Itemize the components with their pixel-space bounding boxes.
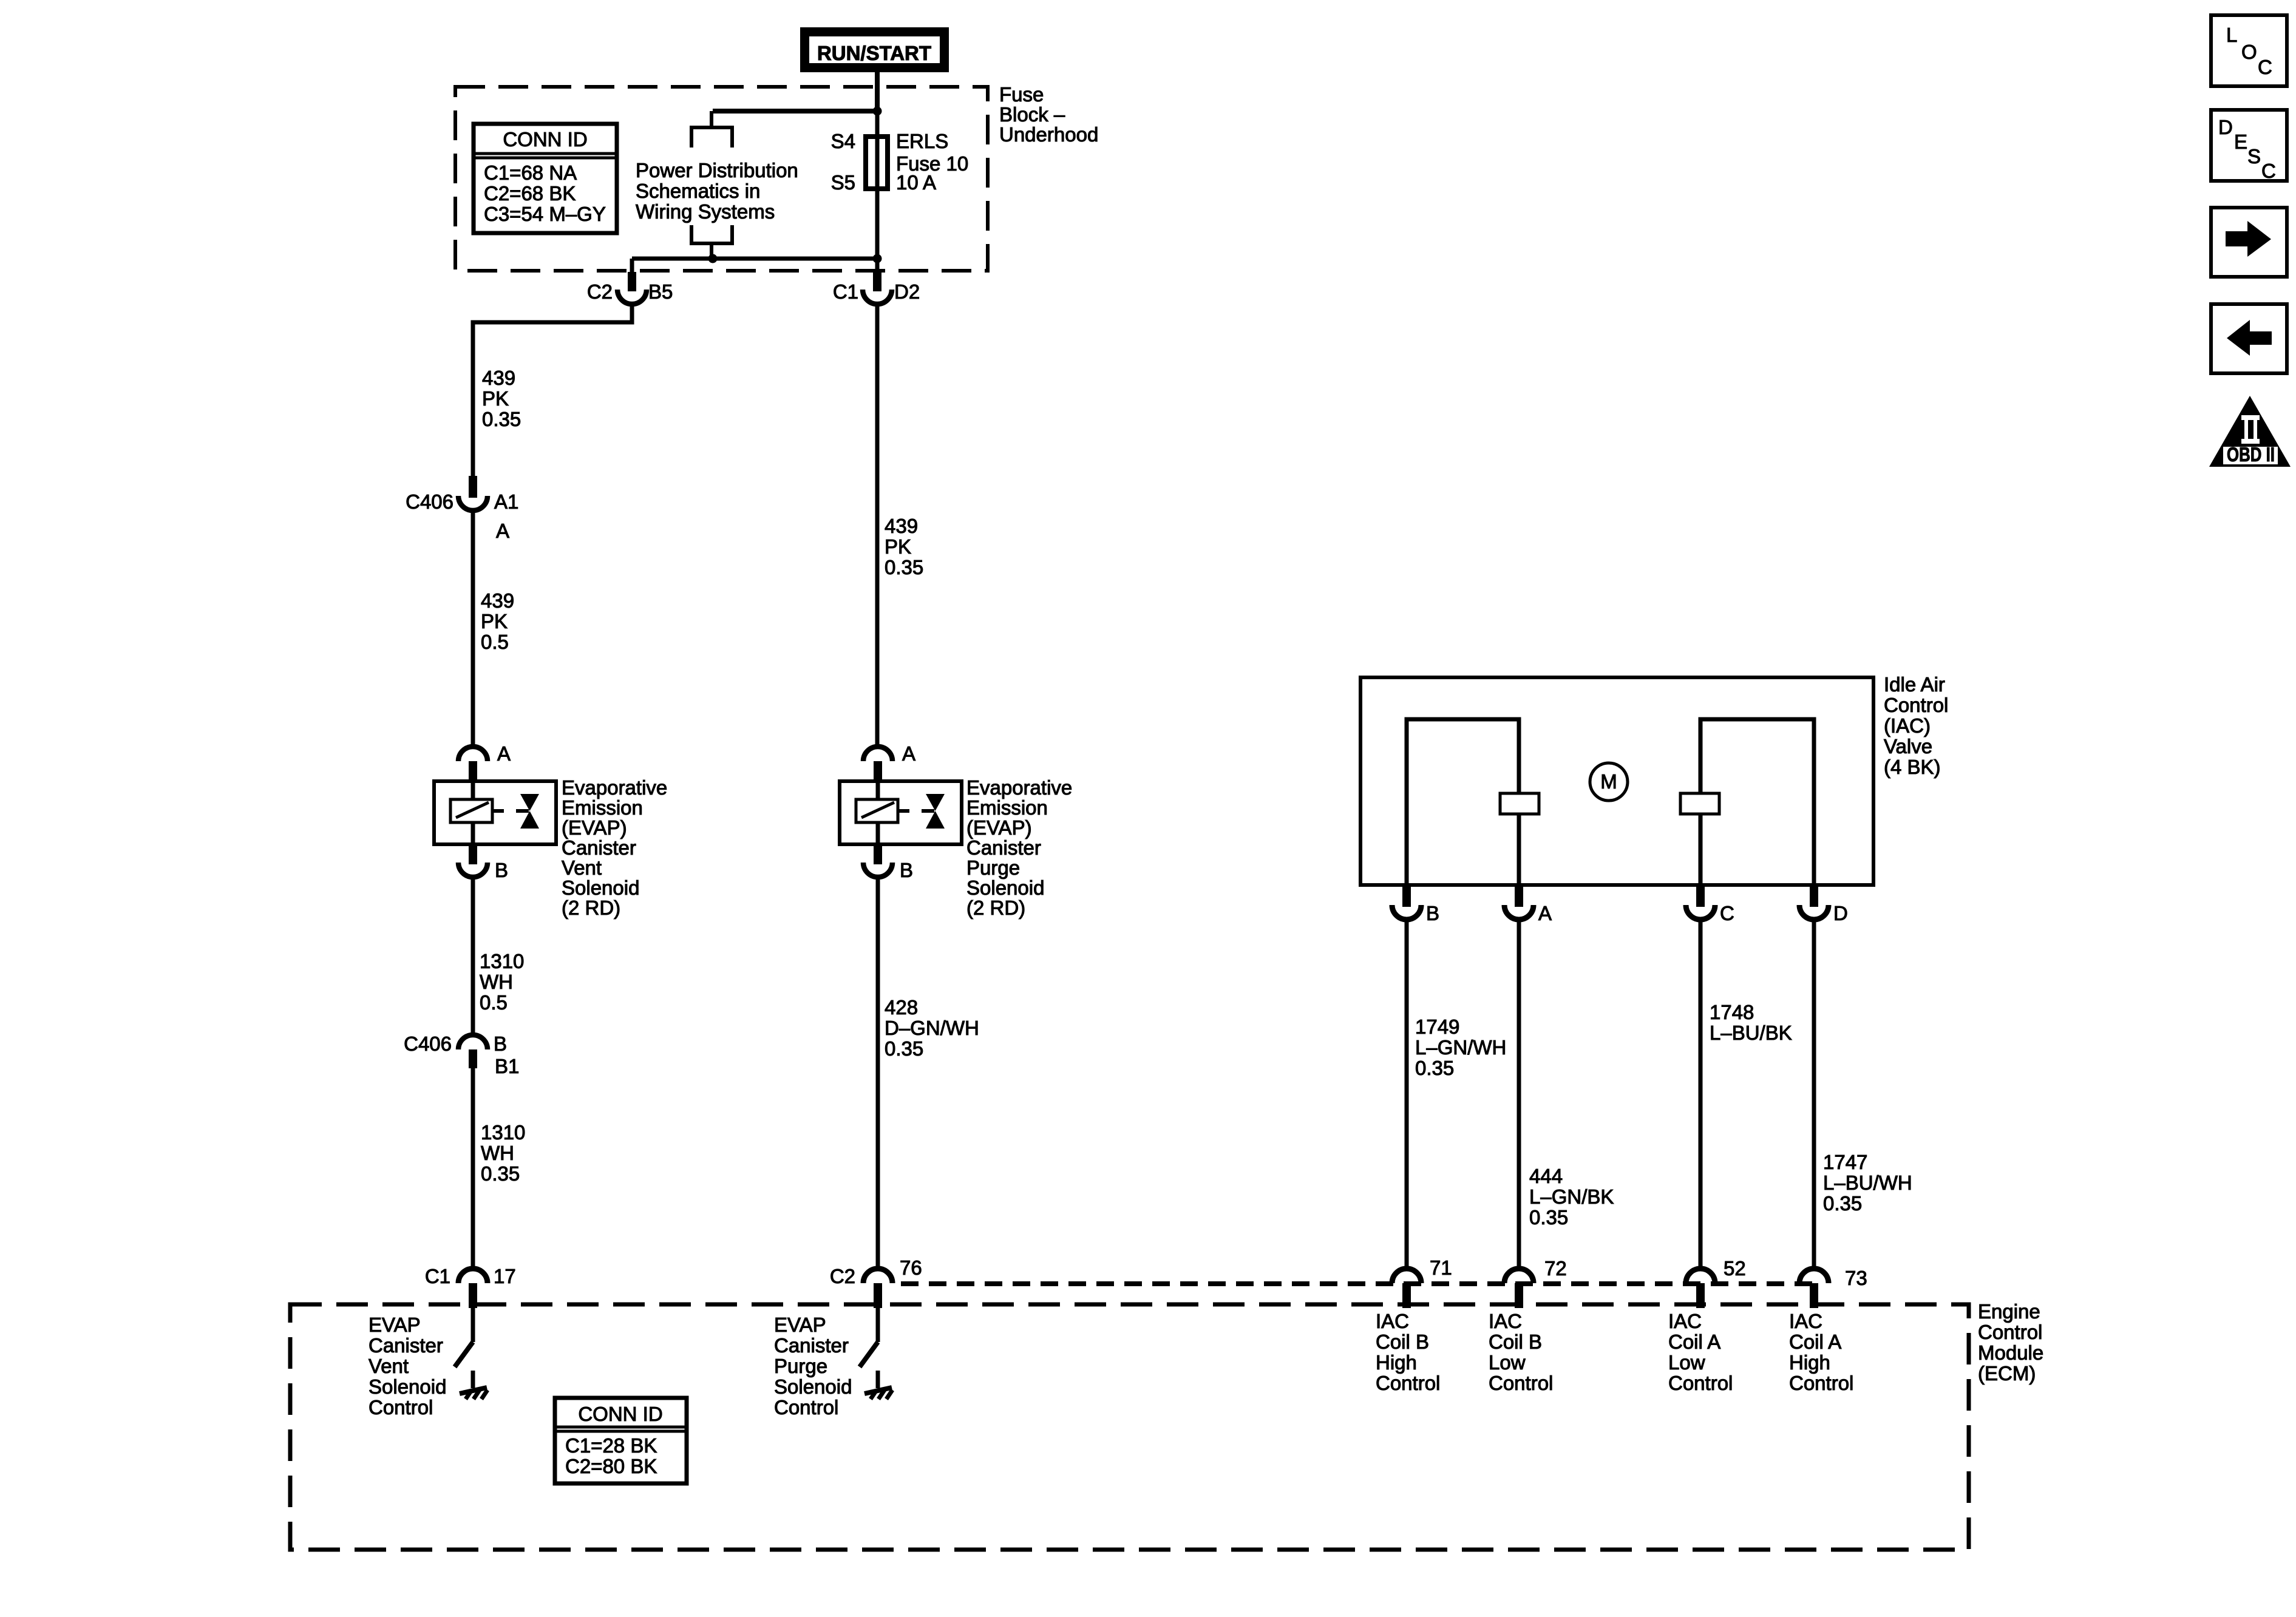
svg-text:EVAP: EVAP	[774, 1314, 826, 1336]
connector C1 pin 17 (ECM)	[425, 1265, 516, 1308]
wire through fuse ERLS	[875, 111, 880, 272]
svg-text:C1=68 NA: C1=68 NA	[484, 161, 577, 184]
connector C406 pin B / B1	[404, 1032, 519, 1077]
label: Idle Air Control (IAC) Valve (4 BK)	[1884, 673, 1948, 778]
svg-text:IAC: IAC	[1489, 1310, 1522, 1332]
note: Power Distribution Schematics in Wiring Systems	[636, 159, 798, 223]
svg-text:1310: 1310	[480, 950, 524, 972]
svg-text:428: 428	[885, 996, 918, 1019]
svg-text:E: E	[2234, 131, 2247, 153]
solenoid coil + valve	[840, 781, 962, 844]
label: EVAP Canister Vent Solenoid Control	[369, 1314, 446, 1419]
svg-text:C1: C1	[425, 1265, 450, 1287]
IAC coil B winding loop	[1407, 719, 1519, 885]
EVAP vent solenoid control switch (ECM internal)	[455, 1308, 487, 1399]
label: Engine Control Module (ECM)	[1978, 1300, 2043, 1385]
svg-text:D–GN/WH: D–GN/WH	[885, 1017, 979, 1039]
junction node S4	[873, 107, 882, 116]
svg-text:High: High	[1789, 1351, 1830, 1374]
svg-text:Purge: Purge	[966, 856, 1020, 879]
label: IAC Coil A High Control	[1789, 1310, 1853, 1394]
svg-text:B1: B1	[495, 1055, 519, 1077]
svg-text:Engine: Engine	[1978, 1300, 2040, 1323]
label: IAC Coil B Low Control	[1489, 1310, 1553, 1394]
IAC valve pin C	[1686, 885, 1734, 924]
svg-text:439: 439	[482, 367, 515, 389]
fuse block - underhood dashed outline	[455, 87, 988, 271]
svg-text:Control: Control	[1668, 1372, 1733, 1394]
svg-text:A: A	[497, 742, 511, 765]
off-page bracket (bottom)	[691, 225, 732, 259]
svg-text:439: 439	[481, 589, 514, 612]
EVAP canister vent solenoid (2 RD)	[458, 742, 511, 783]
wire IAC pin D to ECM	[1812, 919, 1816, 1269]
label: EVAP Canister Purge Solenoid Control	[774, 1314, 852, 1419]
svg-text:Solenoid: Solenoid	[562, 876, 639, 899]
svg-text:A: A	[1538, 902, 1552, 924]
IAC motor M	[1590, 763, 1628, 801]
svg-text:(IAC): (IAC)	[1884, 714, 1931, 737]
svg-text:Low: Low	[1489, 1351, 1526, 1374]
IAC valve pin B	[1392, 885, 1439, 924]
svg-text:IAC: IAC	[1376, 1310, 1409, 1332]
off-page bracket (top) to power distribution	[691, 111, 732, 147]
svg-text:Fuse: Fuse	[999, 83, 1044, 106]
svg-text:A: A	[496, 520, 509, 542]
svg-text:Low: Low	[1668, 1351, 1705, 1374]
CONN ID table (ECM)	[555, 1398, 687, 1483]
wire junction to power distribution tap	[713, 109, 877, 114]
svg-text:L–GN/WH: L–GN/WH	[1415, 1036, 1506, 1059]
svg-text:IAC: IAC	[1789, 1310, 1822, 1332]
fuse ERLS Fuse 10 10A (S4-S5)	[831, 130, 969, 194]
IAC valve pin A	[1504, 885, 1552, 924]
svg-text:PK: PK	[885, 535, 911, 558]
wire IAC pin C to ECM	[1699, 919, 1703, 1269]
label: IAC Coil A Low Control	[1668, 1310, 1733, 1394]
LOC nav icon	[2211, 15, 2287, 86]
svg-text:Idle Air: Idle Air	[1884, 673, 1945, 696]
svg-text:(EVAP): (EVAP)	[562, 816, 627, 839]
OBD II icon	[2209, 396, 2291, 467]
svg-text:1747: 1747	[1823, 1151, 1867, 1173]
wire to ECM pin 17	[471, 1067, 475, 1269]
IAC coil A element	[1680, 793, 1719, 814]
svg-text:C406: C406	[404, 1032, 452, 1055]
dashed net line pin 76 to IAC pins	[901, 1281, 1815, 1286]
label: Fuse Block - Underhood	[999, 83, 1098, 146]
svg-text:B5: B5	[648, 280, 673, 303]
wire label 439 PK 0.35 (purge)	[885, 515, 923, 578]
svg-text:CONN ID: CONN ID	[578, 1403, 662, 1425]
wire D2 down	[875, 302, 880, 748]
wire label 1747 L-BU/WH 0.35	[1823, 1151, 1912, 1215]
svg-text:D2: D2	[894, 280, 920, 303]
CONN ID table (fuse block)	[474, 124, 617, 233]
svg-text:1310: 1310	[481, 1121, 525, 1144]
wire label 444 L-GN/BK 0.35	[1529, 1165, 1614, 1229]
wire C406 to vent solenoid	[471, 509, 475, 748]
wire B5 jog left down	[473, 302, 632, 480]
wire label 1749 L-GN/WH 0.35	[1415, 1015, 1506, 1079]
power feed RUN/START box	[805, 32, 945, 68]
EVAP purge solenoid control switch (ECM internal)	[860, 1308, 892, 1399]
connector C2 pin B5 (fuse block output left)	[587, 272, 673, 304]
svg-text:Valve: Valve	[1884, 735, 1932, 758]
svg-text:C2: C2	[830, 1265, 855, 1287]
svg-text:C: C	[2258, 56, 2272, 78]
svg-text:L: L	[2226, 24, 2237, 46]
svg-text:Vent: Vent	[562, 856, 602, 879]
svg-text:(EVAP): (EVAP)	[966, 816, 1032, 839]
svg-text:0.35: 0.35	[482, 408, 521, 430]
svg-text:D: D	[2218, 116, 2233, 138]
svg-text:C2=68 BK: C2=68 BK	[484, 182, 576, 205]
connector C1 pin D2 (fuse block output right)	[833, 272, 920, 304]
svg-text:Emission: Emission	[966, 796, 1048, 819]
svg-text:Module: Module	[1978, 1341, 2043, 1364]
svg-text:10 A: 10 A	[896, 171, 936, 194]
svg-text:IAC: IAC	[1668, 1310, 1702, 1332]
svg-text:Coil B: Coil B	[1489, 1331, 1542, 1353]
IAC valve pin D	[1799, 885, 1848, 924]
svg-text:L–GN/BK: L–GN/BK	[1529, 1185, 1614, 1208]
IAC coil A winding loop	[1700, 719, 1814, 885]
wire label 1748 L-BU/BK	[1710, 1001, 1792, 1044]
svg-text:Control: Control	[1489, 1372, 1553, 1394]
DESC nav icon	[2211, 110, 2287, 182]
pin B connector	[458, 844, 508, 881]
svg-text:Control: Control	[774, 1396, 838, 1419]
svg-text:Wiring Systems: Wiring Systems	[636, 200, 775, 223]
svg-text:EVAP: EVAP	[369, 1314, 421, 1336]
wire label 439 PK 0.5	[481, 589, 514, 653]
svg-text:Control: Control	[369, 1396, 433, 1419]
svg-text:Coil A: Coil A	[1668, 1331, 1720, 1353]
svg-text:73: 73	[1845, 1267, 1867, 1289]
svg-text:(ECM): (ECM)	[1978, 1362, 2036, 1385]
svg-text:Evaporative: Evaporative	[966, 776, 1072, 799]
svg-text:0.35: 0.35	[481, 1162, 520, 1185]
svg-text:0.35: 0.35	[885, 1037, 923, 1060]
svg-text:C: C	[2261, 160, 2276, 182]
svg-text:Power Distribution: Power Distribution	[636, 159, 798, 181]
svg-text:C2=80 BK: C2=80 BK	[565, 1455, 657, 1477]
svg-text:C1: C1	[833, 280, 858, 303]
wire label 1310 WH 0.35	[481, 1121, 525, 1185]
wire RUN/START to junction S4	[875, 70, 880, 111]
pin B connector	[863, 844, 913, 881]
svg-text:B: B	[900, 859, 913, 881]
svg-text:C1=28 BK: C1=28 BK	[565, 1434, 657, 1457]
forward arrow icon	[2211, 208, 2287, 277]
svg-text:Purge: Purge	[774, 1355, 827, 1377]
svg-text:Solenoid: Solenoid	[774, 1375, 852, 1398]
wire IAC pin A to ECM	[1517, 919, 1521, 1269]
svg-text:Canister: Canister	[369, 1334, 443, 1357]
Idle Air Control (IAC) valve box	[1360, 677, 1873, 885]
svg-text:RUN/START: RUN/START	[817, 42, 931, 64]
svg-text:C: C	[1720, 902, 1734, 924]
svg-text:Canister: Canister	[774, 1334, 849, 1357]
svg-text:439: 439	[885, 515, 918, 537]
svg-text:PK: PK	[481, 610, 508, 632]
solenoid coil + valve	[434, 781, 556, 844]
svg-text:PK: PK	[482, 387, 509, 410]
connector C2 pin 76 (ECM)	[830, 1256, 922, 1308]
svg-text:72: 72	[1544, 1257, 1567, 1280]
connector ECM pin 73	[1799, 1267, 1867, 1308]
svg-text:(2 RD): (2 RD)	[966, 897, 1025, 919]
svg-text:WH: WH	[480, 971, 513, 993]
svg-text:52: 52	[1724, 1257, 1746, 1280]
svg-text:B: B	[495, 859, 508, 881]
svg-text:S4: S4	[831, 130, 855, 152]
IAC coil B element	[1500, 793, 1539, 814]
label: IAC Coil B High Control	[1376, 1310, 1440, 1394]
svg-text:Control: Control	[1978, 1321, 2042, 1343]
svg-text:17: 17	[494, 1265, 516, 1287]
svg-text:Underhood: Underhood	[999, 123, 1098, 146]
svg-text:444: 444	[1529, 1165, 1563, 1187]
svg-text:71: 71	[1430, 1256, 1452, 1279]
svg-text:OBD II: OBD II	[2227, 443, 2275, 466]
svg-text:B: B	[494, 1032, 507, 1055]
svg-text:Block –: Block –	[999, 103, 1065, 126]
svg-text:M: M	[1600, 770, 1617, 793]
svg-text:Coil A: Coil A	[1789, 1331, 1841, 1353]
svg-text:0.35: 0.35	[1415, 1057, 1454, 1079]
svg-text:Control: Control	[1376, 1372, 1440, 1394]
svg-text:L–BU/WH: L–BU/WH	[1823, 1171, 1912, 1194]
connector ECM pin 52	[1686, 1257, 1746, 1308]
Engine Control Module (ECM) dashed outline	[290, 1304, 1969, 1550]
svg-text:B: B	[1426, 902, 1439, 924]
svg-text:Schematics in: Schematics in	[636, 180, 760, 202]
svg-text:CONN ID: CONN ID	[503, 128, 587, 151]
svg-text:(2 RD): (2 RD)	[562, 897, 620, 919]
connector ECM pin 71	[1392, 1256, 1452, 1308]
svg-text:S5: S5	[831, 171, 855, 194]
wire vent solenoid to C406 B	[471, 876, 475, 1036]
wire purge solenoid to ECM pin 76	[876, 876, 880, 1269]
svg-text:A: A	[902, 742, 915, 765]
svg-text:D: D	[1833, 902, 1848, 924]
label	[966, 776, 1072, 919]
svg-text:Coil B: Coil B	[1376, 1331, 1429, 1353]
svg-text:O: O	[2241, 41, 2257, 63]
wire label 439 PK 0.35 (left)	[482, 367, 521, 430]
svg-text:0.35: 0.35	[885, 556, 923, 578]
label	[562, 776, 667, 919]
wire IAC pin B to ECM	[1405, 919, 1409, 1269]
svg-text:0.35: 0.35	[1529, 1206, 1568, 1229]
svg-text:Solenoid: Solenoid	[966, 876, 1044, 899]
EVAP canister purge solenoid (2 RD)	[863, 742, 915, 783]
svg-text:Control: Control	[1789, 1372, 1853, 1394]
svg-text:High: High	[1376, 1351, 1417, 1374]
svg-text:Canister: Canister	[562, 836, 636, 859]
svg-text:C2: C2	[587, 280, 613, 303]
back arrow icon	[2211, 304, 2287, 373]
svg-text:ERLS: ERLS	[896, 130, 948, 152]
svg-text:1749: 1749	[1415, 1015, 1459, 1038]
svg-text:Vent: Vent	[369, 1355, 409, 1377]
svg-text:(4 BK): (4 BK)	[1884, 756, 1941, 778]
wire label 1310 WH 0.5	[480, 950, 524, 1014]
wire fuse output junction	[632, 257, 877, 261]
junction node S5 branch	[708, 254, 718, 263]
svg-text:Emission: Emission	[562, 796, 643, 819]
svg-text:1748: 1748	[1710, 1001, 1754, 1023]
svg-text:0.5: 0.5	[481, 631, 509, 653]
connector C406 pin A1	[406, 476, 518, 542]
svg-text:Control: Control	[1884, 694, 1948, 716]
svg-text:Evaporative: Evaporative	[562, 776, 667, 799]
svg-text:S: S	[2247, 145, 2261, 168]
svg-text:76: 76	[900, 1256, 922, 1279]
wire label 428 D-GN/WH 0.35	[885, 996, 979, 1060]
svg-text:A1: A1	[494, 490, 518, 513]
svg-text:C3=54 M–GY: C3=54 M–GY	[484, 203, 606, 225]
svg-text:WH: WH	[481, 1142, 514, 1164]
connector ECM pin 72	[1504, 1257, 1567, 1308]
svg-text:0.5: 0.5	[480, 991, 508, 1014]
svg-text:Solenoid: Solenoid	[369, 1375, 446, 1398]
svg-text:Canister: Canister	[966, 836, 1041, 859]
svg-text:L–BU/BK: L–BU/BK	[1710, 1022, 1792, 1044]
svg-text:C406: C406	[406, 490, 453, 513]
svg-text:0.35: 0.35	[1823, 1192, 1862, 1215]
